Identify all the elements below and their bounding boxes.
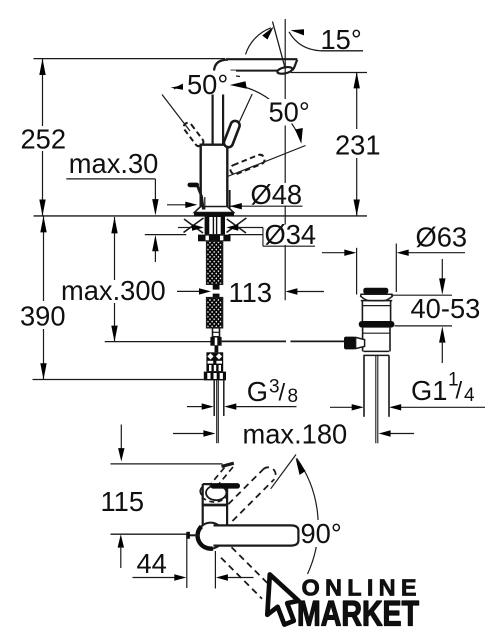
reference line max.300 bottom <box>105 341 211 343</box>
drain body <box>362 328 364 352</box>
svg-text:50°: 50° <box>269 97 310 128</box>
svg-text:390: 390 <box>20 301 66 332</box>
svg-text:Ø63: Ø63 <box>416 221 468 252</box>
dashed spout 45 down edges <box>221 558 262 599</box>
15 degree tilted line <box>273 22 286 69</box>
label Ø48 <box>248 183 304 205</box>
dimension G3/8 arrows <box>187 406 203 408</box>
90 arc <box>297 458 319 574</box>
faucet base flare skirt <box>194 207 233 213</box>
hatch cross left <box>184 218 204 233</box>
dimension Ø63 arrows <box>322 252 345 254</box>
15 degree arc arrowhead <box>262 27 273 40</box>
left 50 reference line <box>162 95 190 132</box>
supply pipe center lines <box>216 380 218 443</box>
50 arc left arrowhead <box>171 84 188 90</box>
svg-text:44: 44 <box>137 548 167 579</box>
swivel circle <box>198 523 224 549</box>
dimension 390 line <box>43 216 45 301</box>
svg-text:231: 231 <box>335 130 381 161</box>
tail pipe center lines <box>375 355 377 443</box>
max.30 lower arrow <box>152 235 158 251</box>
drain plug cap <box>363 288 388 294</box>
svg-text:G: G <box>247 376 268 407</box>
dashed spout 45 up cap <box>263 467 276 480</box>
svg-text:90°: 90° <box>301 518 342 549</box>
50 arc right arrowhead lower end <box>295 128 303 144</box>
drain nut lines <box>363 350 389 352</box>
dimension 252 line <box>42 59 44 126</box>
spout top edge <box>226 58 297 60</box>
hose lower connector <box>213 328 220 337</box>
reference line top (252 upper) <box>34 58 226 60</box>
deck / mounting surface line <box>34 215 368 217</box>
dimension 44 <box>186 534 188 588</box>
hatch cross right <box>227 218 247 233</box>
faucet base plate dark <box>194 213 234 217</box>
pop-up rod handle <box>188 183 200 188</box>
plan solid spout <box>214 525 299 545</box>
svg-text:max.300: max.300 <box>61 275 166 306</box>
dimension 40-53 <box>441 259 443 282</box>
right 65 reference line <box>228 146 306 177</box>
dimension max.180 <box>173 433 204 435</box>
mounting nut <box>198 235 231 242</box>
cursor icon <box>267 575 298 625</box>
dimension G1 1/4 arrows <box>330 406 353 408</box>
dimension Ø48 arrows <box>167 204 186 206</box>
o-ring seal <box>359 321 395 328</box>
braided hose lower <box>207 298 223 328</box>
body lower step line right <box>229 190 231 209</box>
rod knob <box>344 337 356 350</box>
svg-text:40-53: 40-53 <box>411 293 481 324</box>
plan body waist line <box>202 504 228 507</box>
braided hose upper <box>207 241 223 284</box>
reference line 115 bottom <box>111 533 189 535</box>
plan lever bar <box>211 483 241 489</box>
counter bottom line right <box>229 234 264 236</box>
svg-text:/: / <box>279 380 286 407</box>
reference line plan top <box>111 463 223 465</box>
plan left bulge <box>200 487 202 496</box>
dimension 231 line <box>356 72 358 129</box>
label Ø34 <box>264 225 315 246</box>
dimension 115 <box>120 425 122 450</box>
aerator <box>277 66 293 75</box>
svg-text:Ø34: Ø34 <box>265 219 317 250</box>
dashed spout 45 up edges <box>228 470 263 505</box>
tail pipe walls <box>363 355 365 416</box>
right dashed lever <box>229 153 266 175</box>
svg-text:max.180: max.180 <box>243 419 348 450</box>
label 50 deg left <box>183 71 236 95</box>
svg-text:50°: 50° <box>187 69 228 100</box>
spout tip face <box>292 60 297 70</box>
shank with ribs <box>205 216 225 235</box>
Ø63 extension lines <box>356 248 358 295</box>
supply pipe walls <box>213 380 215 416</box>
pop-up rod horizontal right <box>222 340 286 342</box>
15 degree arc <box>246 28 272 55</box>
dimension Ø34 arrows <box>178 227 193 229</box>
50 arc right arrowhead left end <box>230 81 247 89</box>
svg-text:max.30: max.30 <box>69 148 159 179</box>
spout bottom edge <box>231 70 280 72</box>
svg-text:/: / <box>456 378 463 405</box>
svg-text:8: 8 <box>288 386 299 407</box>
svg-text:113: 113 <box>229 277 273 308</box>
label 90 deg <box>300 520 348 547</box>
rod cross junction <box>210 337 221 346</box>
lower nut <box>204 372 226 381</box>
dimension 113 arrows <box>177 290 200 292</box>
50 arc left <box>174 75 240 89</box>
spout bend outer <box>214 60 228 72</box>
svg-text:252: 252 <box>21 124 67 155</box>
50 arc right <box>246 88 300 138</box>
reference line 231 top <box>291 72 368 74</box>
faucet body <box>201 145 228 208</box>
svg-text:MARKET: MARKET <box>297 594 419 634</box>
right lever axis line <box>240 94 253 122</box>
hose connector break <box>213 284 220 290</box>
plan body top edge <box>203 483 212 485</box>
left dashed lever <box>182 121 205 148</box>
swivel circle thick arc <box>198 526 213 548</box>
drain flange <box>361 294 393 300</box>
spout tip bar plan <box>222 463 234 466</box>
svg-text:4: 4 <box>464 385 475 406</box>
label 50 deg right <box>265 99 308 124</box>
flange cylinder <box>361 301 363 322</box>
plan dome ellipse <box>206 485 226 500</box>
check valve hatched block <box>206 352 223 371</box>
solid lever tilted <box>223 120 241 149</box>
plan body sides <box>202 484 204 525</box>
90 arc arrowhead <box>296 458 306 475</box>
label 15 deg leader <box>289 32 321 51</box>
reference line 390 bottom <box>33 379 204 381</box>
90 reference line <box>271 455 296 489</box>
counter bottom line left <box>145 234 187 236</box>
svg-text:G1: G1 <box>411 375 447 406</box>
lever vertical lines <box>212 92 214 145</box>
junction pin <box>215 346 219 353</box>
svg-text:Ø48: Ø48 <box>251 179 303 210</box>
hidden spout dashed edges up <box>210 468 225 486</box>
plan pop-up rod <box>188 534 199 536</box>
centerline segments <box>284 19 286 99</box>
svg-text:115: 115 <box>101 486 145 517</box>
plan hidden dashed arc <box>202 497 227 502</box>
dimension max.300 line <box>114 217 116 280</box>
